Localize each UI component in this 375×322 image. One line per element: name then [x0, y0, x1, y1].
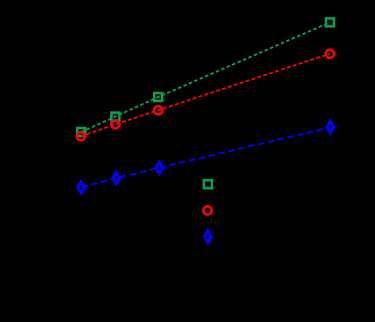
blue thin-diamond marker 1 — [78, 182, 85, 194]
blue thin-diamond marker 3 — [156, 162, 163, 174]
green square marker 1 — [77, 128, 85, 136]
blue thin-diamond marker 2 — [113, 172, 120, 184]
green square marker 2 — [111, 113, 119, 121]
red circle marker 4 — [326, 50, 334, 58]
blue dashed series line — [81, 127, 330, 187]
legend green square marker — [204, 180, 212, 188]
red circle marker 2 — [111, 120, 119, 128]
blue thin-diamond marker 4 — [327, 122, 334, 134]
green dashed series line — [81, 22, 330, 132]
legend red circle marker — [203, 206, 211, 214]
red dashed series line — [81, 54, 330, 137]
red circle marker 1 — [77, 132, 85, 140]
green square marker 4 — [326, 18, 334, 26]
red circle marker 3 — [154, 106, 162, 114]
green square marker 3 — [154, 93, 162, 101]
legend blue thin-diamond marker — [204, 231, 211, 243]
